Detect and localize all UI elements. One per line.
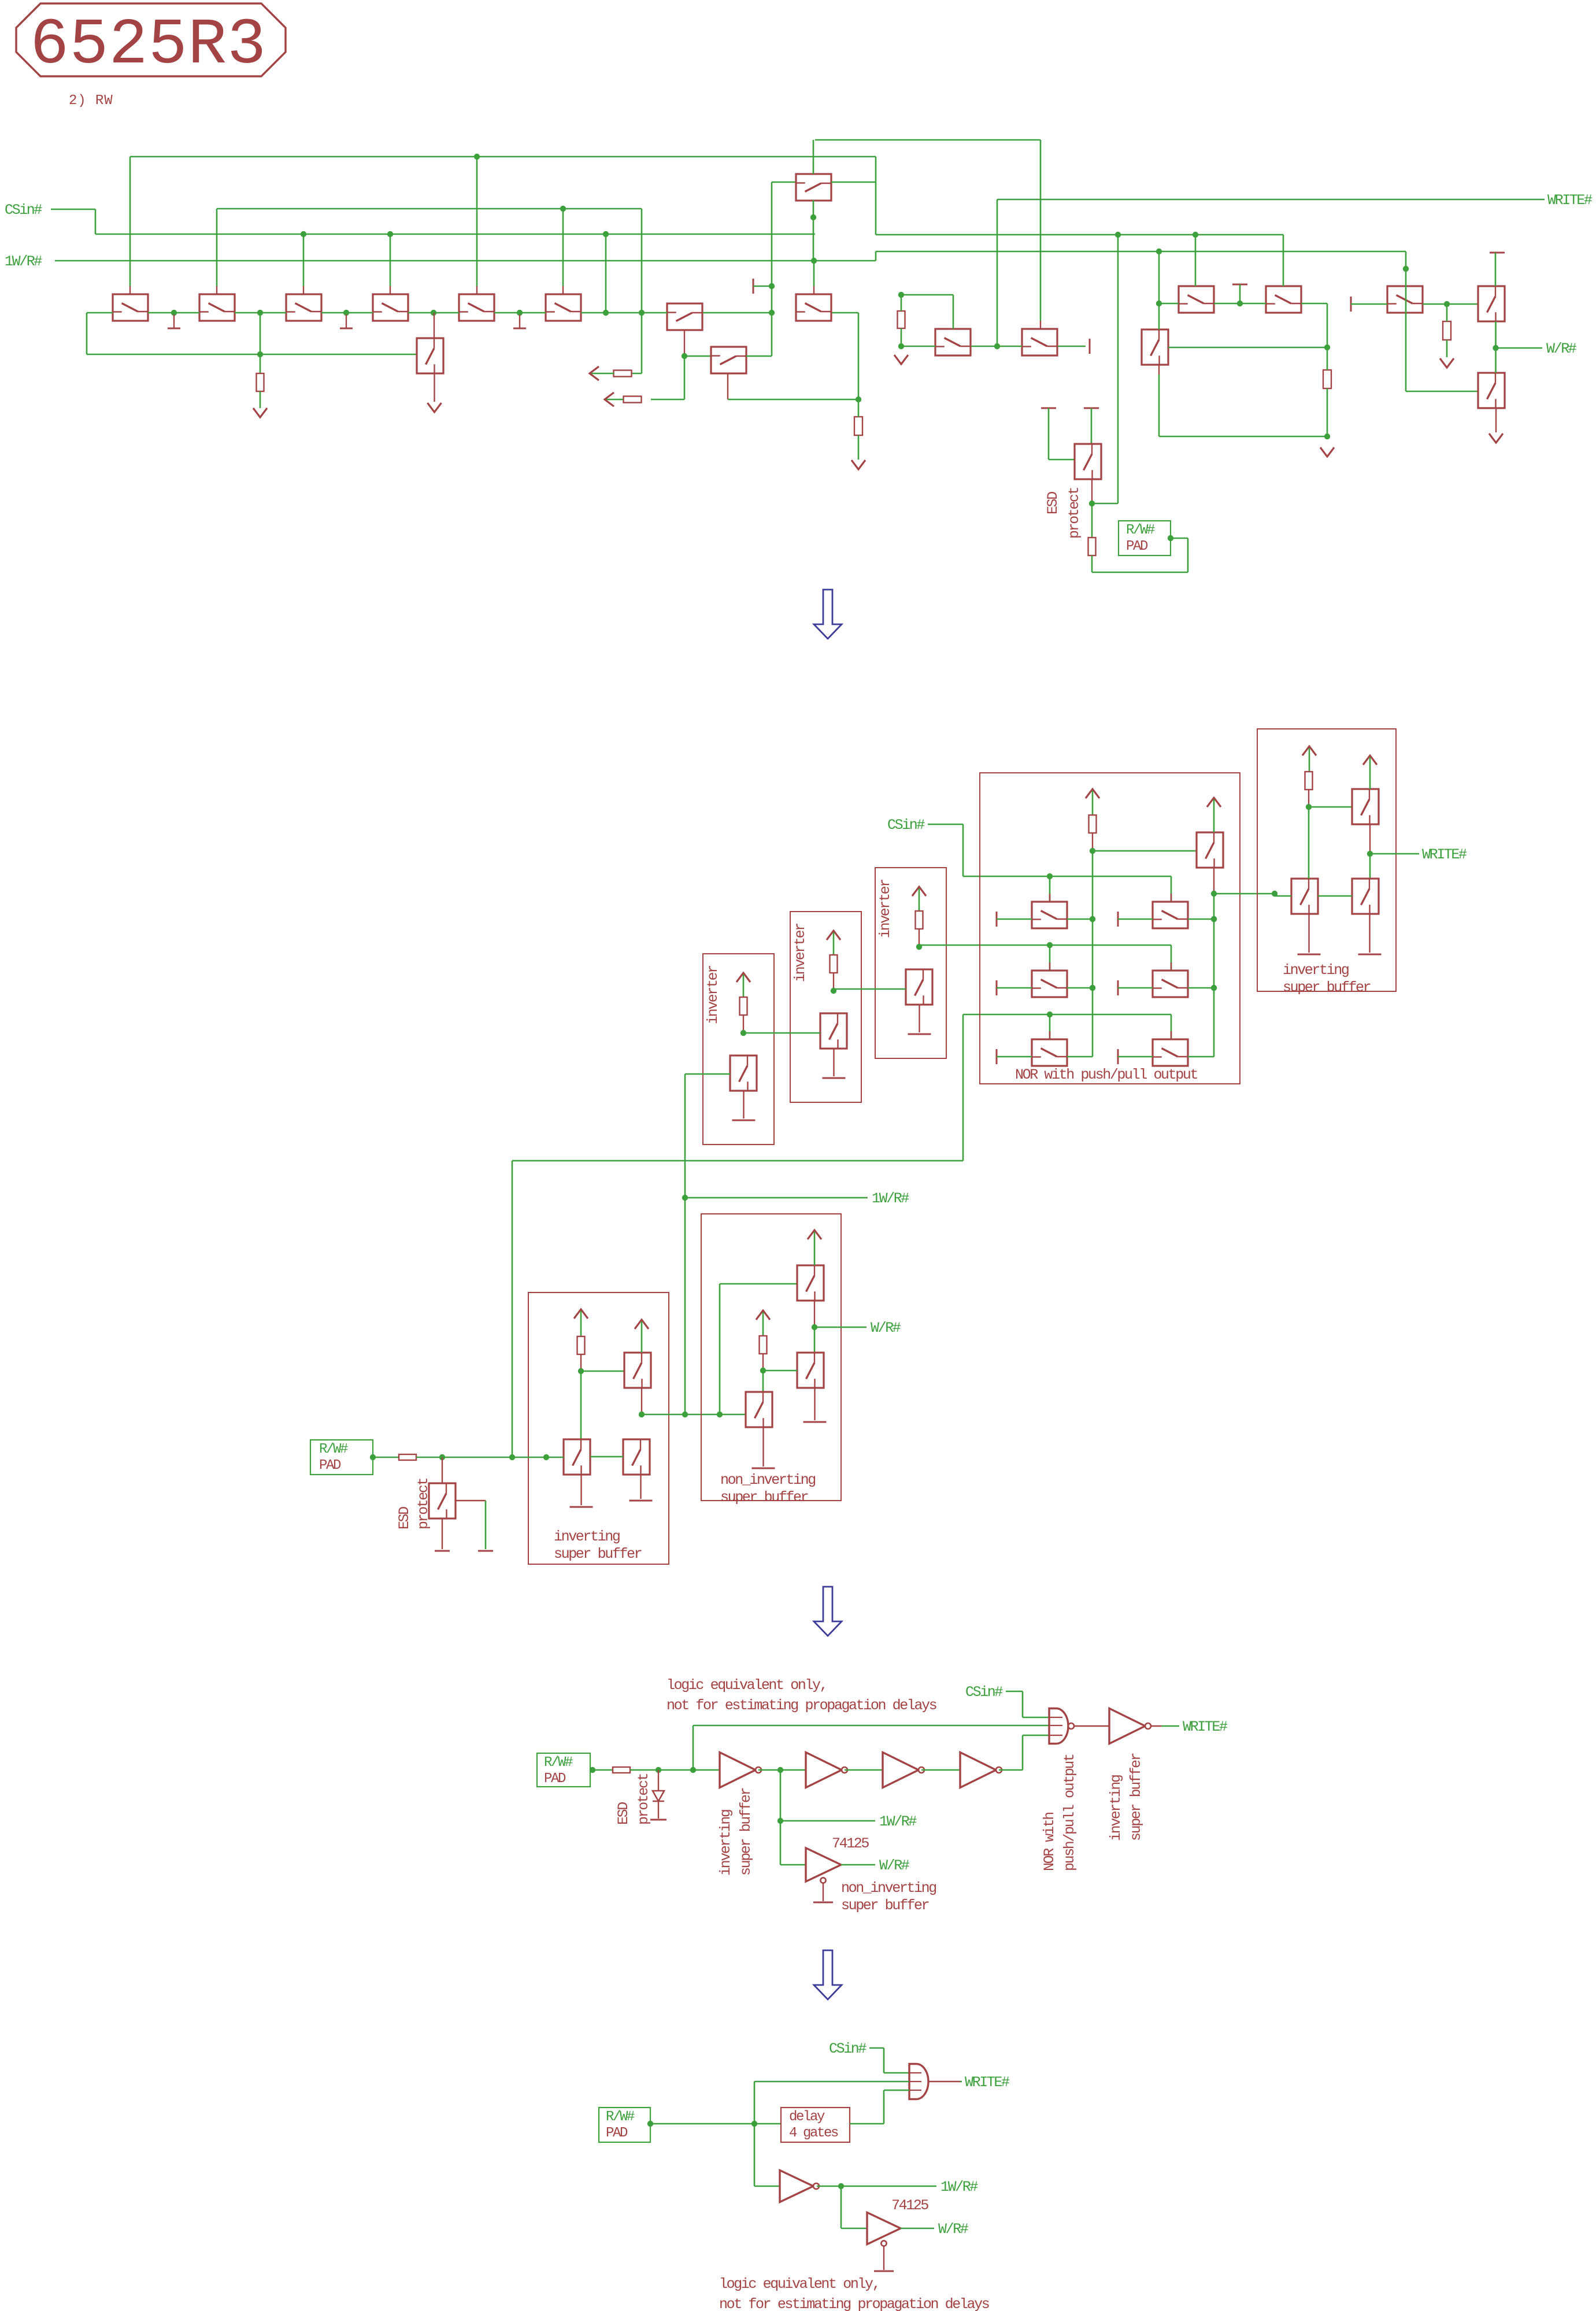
svg-text:ESD: ESD [396,1507,413,1529]
svg-text:PAD: PAD [544,1771,566,1787]
svg-text:W/R#: W/R# [879,1857,910,1874]
svg-text:R/W#: R/W# [606,2109,635,2125]
svg-text:super buffer: super buffer [1283,979,1371,996]
svg-text:super buffer: super buffer [720,1489,808,1506]
svg-text:6525R3: 6525R3 [30,9,266,82]
svg-text:super buffer: super buffer [554,1546,642,1562]
svg-text:inverting: inverting [1108,1775,1124,1841]
svg-text:CSin#: CSin# [5,202,42,218]
svg-text:PAD: PAD [606,2125,628,2141]
svg-text:logic equivalent only,: logic equivalent only, [666,1677,827,1694]
svg-text:push/pull output: push/pull output [1061,1754,1078,1871]
svg-text:74125: 74125 [832,1835,869,1852]
svg-text:super buffer: super buffer [1128,1753,1145,1841]
svg-text:CSin#: CSin# [829,2040,866,2057]
svg-text:inverting: inverting [717,1810,734,1876]
svg-text:NOR with push/pull output: NOR with push/pull output [1015,1066,1197,1083]
svg-text:WRITE#: WRITE# [1422,846,1467,863]
svg-text:inverter: inverter [705,966,721,1024]
svg-text:R/W#: R/W# [1126,523,1155,538]
svg-text:inverting: inverting [1283,962,1349,979]
svg-text:W/R#: W/R# [938,2221,969,2238]
svg-text:protect: protect [1066,487,1083,539]
svg-text:4 gates: 4 gates [789,2125,838,2141]
svg-text:protect: protect [635,1773,652,1825]
svg-text:W/R#: W/R# [871,1320,901,1336]
svg-text:WRITE#: WRITE# [965,2074,1010,2091]
svg-text:non_inverting: non_inverting [841,1880,936,1897]
svg-text:delay: delay [789,2109,825,2125]
svg-text:W/R#: W/R# [1546,340,1577,357]
svg-text:PAD: PAD [319,1458,341,1473]
svg-text:not for estimating propagation: not for estimating propagation delays [719,2296,989,2311]
svg-text:1W/R#: 1W/R# [5,253,42,270]
svg-text:PAD: PAD [1126,539,1148,554]
svg-text:super buffer: super buffer [738,1788,754,1876]
svg-text:inverter: inverter [877,880,894,938]
svg-text:non_inverting: non_inverting [720,1472,815,1488]
svg-text:WRITE#: WRITE# [1183,1719,1228,1735]
svg-text:protect: protect [415,1478,432,1529]
svg-text:inverter: inverter [792,924,809,982]
svg-text:not for estimating propagation: not for estimating propagation delays [666,1697,936,1714]
svg-text:R/W#: R/W# [319,1442,348,1457]
svg-text:1W/R#: 1W/R# [940,2179,978,2195]
svg-text:74125: 74125 [891,2197,928,2214]
svg-text:logic equivalent only,: logic equivalent only, [719,2276,879,2293]
svg-text:ESD: ESD [615,1802,632,1825]
svg-text:WRITE#: WRITE# [1547,192,1593,209]
svg-text:ESD: ESD [1045,492,1061,514]
svg-text:CSin#: CSin# [965,1684,1003,1701]
svg-text:2) RW: 2) RW [69,93,113,109]
svg-text:1W/R#: 1W/R# [879,1813,917,1830]
svg-text:super buffer: super buffer [841,1897,929,1914]
svg-text:1W/R#: 1W/R# [872,1190,909,1207]
svg-text:inverting: inverting [554,1528,620,1545]
svg-text:R/W#: R/W# [544,1755,573,1771]
svg-text:CSin#: CSin# [887,817,925,834]
svg-text:NOR with: NOR with [1041,1813,1058,1871]
